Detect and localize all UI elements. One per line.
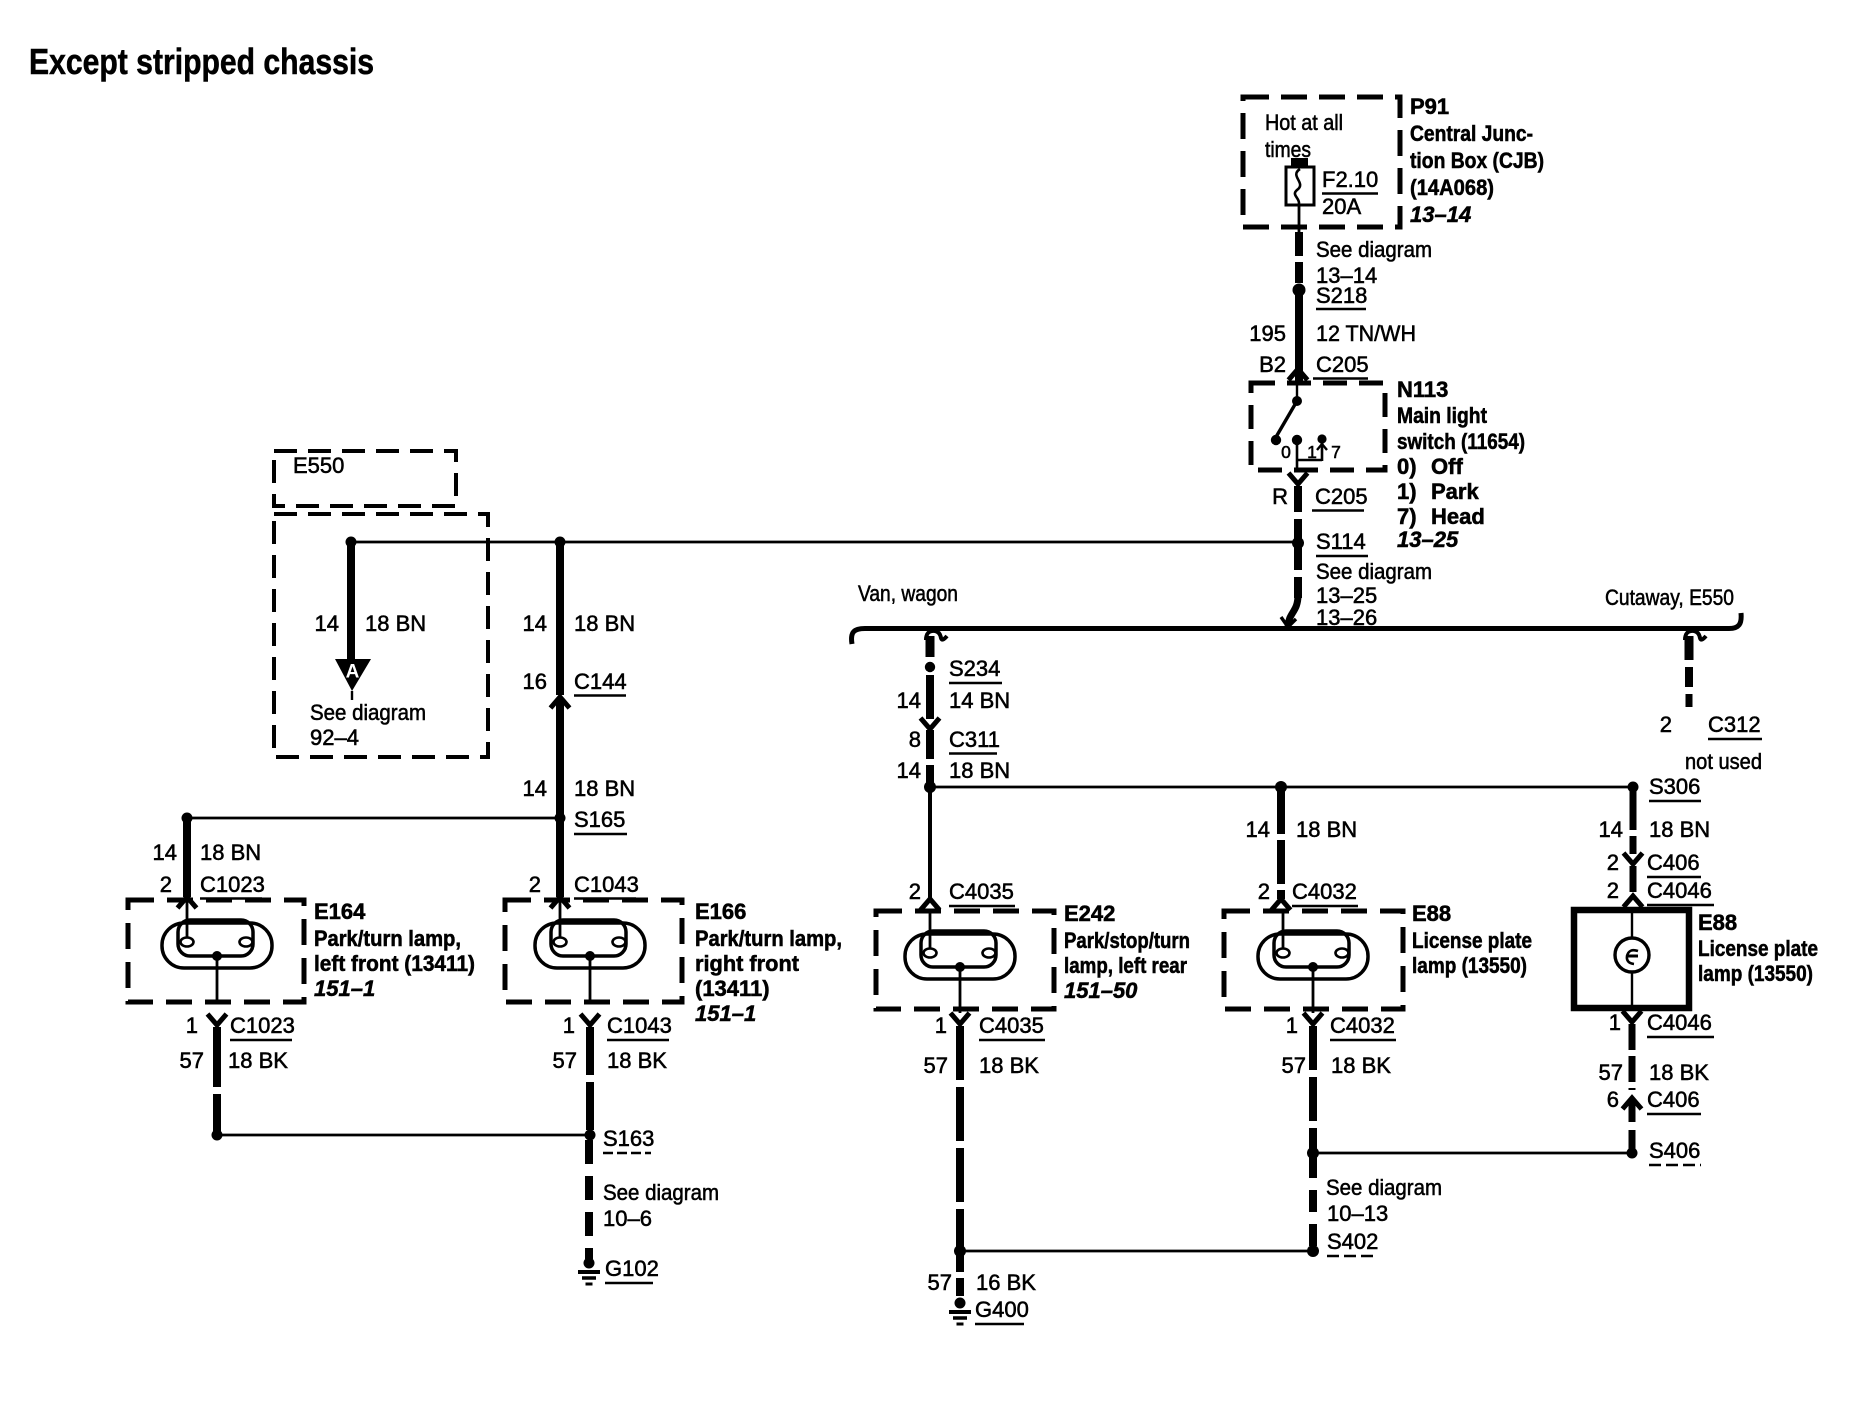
svg-text:57: 57 [180,1048,204,1073]
svg-text:1: 1 [935,1013,947,1038]
svg-text:13–14: 13–14 [1410,202,1471,227]
svg-text:C1023: C1023 [230,1013,295,1038]
svg-text:14: 14 [315,611,339,636]
svg-text:Central Junc-: Central Junc- [1410,121,1533,146]
svg-text:C1043: C1043 [607,1013,672,1038]
svg-text:20A: 20A [1322,194,1361,219]
svg-text:195: 195 [1249,321,1286,346]
svg-text:0): 0) [1397,454,1417,479]
svg-text:14: 14 [897,758,921,783]
svg-text:14 BN: 14 BN [949,688,1010,713]
svg-text:57: 57 [553,1048,577,1073]
svg-text:2: 2 [160,872,172,897]
svg-text:18 BN: 18 BN [200,840,261,865]
svg-text:S114: S114 [1316,529,1366,554]
svg-text:2: 2 [1660,712,1672,737]
svg-text:2: 2 [909,879,921,904]
svg-text:C144: C144 [574,669,627,694]
svg-text:10–6: 10–6 [603,1206,652,1231]
svg-text:R: R [1272,484,1288,509]
svg-text:57: 57 [924,1053,948,1078]
svg-text:lamp (13550): lamp (13550) [1698,961,1813,986]
svg-text:C1023: C1023 [200,872,265,897]
svg-text:6: 6 [1607,1087,1619,1112]
svg-text:16 BK: 16 BK [976,1270,1036,1295]
svg-text:E242: E242 [1064,901,1115,926]
svg-text:13–25: 13–25 [1397,527,1459,552]
svg-text:B2: B2 [1259,352,1286,377]
svg-text:1: 1 [563,1013,575,1038]
svg-text:1: 1 [1286,1013,1298,1038]
svg-text:C406: C406 [1647,850,1700,875]
svg-text:C4046: C4046 [1647,878,1712,903]
svg-text:S163: S163 [603,1126,654,1151]
svg-text:7): 7) [1397,504,1417,529]
svg-text:151–50: 151–50 [1064,978,1138,1003]
svg-text:16: 16 [523,669,547,694]
svg-text:See diagram: See diagram [603,1180,719,1205]
svg-text:14: 14 [1246,817,1270,842]
svg-text:C311: C311 [949,727,1000,752]
svg-text:1: 1 [186,1013,198,1038]
svg-text:Head: Head [1431,504,1485,529]
svg-text:18 BN: 18 BN [365,611,426,636]
svg-text:E164: E164 [314,899,366,924]
svg-text:57: 57 [1282,1053,1306,1078]
svg-text:C4035: C4035 [979,1013,1044,1038]
svg-text:14: 14 [523,776,547,801]
svg-text:C4032: C4032 [1292,879,1357,904]
svg-text:14: 14 [523,611,547,636]
svg-text:18 BK: 18 BK [607,1048,667,1073]
svg-text:12 TN/WH: 12 TN/WH [1316,321,1416,346]
svg-text:tion Box (CJB): tion Box (CJB) [1410,148,1544,173]
svg-text:(14A068): (14A068) [1410,175,1494,200]
svg-text:lamp (13550): lamp (13550) [1412,953,1527,978]
svg-text:C312: C312 [1708,712,1761,737]
svg-text:License plate: License plate [1412,928,1532,953]
svg-text:C406: C406 [1647,1087,1700,1112]
svg-text:S234: S234 [949,656,1000,681]
svg-text:7: 7 [1331,442,1341,462]
svg-text:lamp, left rear: lamp, left rear [1064,953,1187,978]
svg-text:switch (11654): switch (11654) [1397,429,1525,454]
svg-text:E166: E166 [695,899,746,924]
svg-text:10–13: 10–13 [1327,1201,1388,1226]
svg-text:151–1: 151–1 [314,976,375,1001]
svg-text:18 BN: 18 BN [1296,817,1357,842]
svg-text:14: 14 [1599,817,1623,842]
svg-text:G102: G102 [605,1256,659,1281]
svg-text:Park/turn lamp,: Park/turn lamp, [314,926,461,951]
svg-text:Van, wagon: Van, wagon [858,581,958,606]
svg-text:151–1: 151–1 [695,1001,756,1026]
svg-text:not used: not used [1685,749,1762,774]
svg-text:Off: Off [1431,454,1463,479]
svg-text:2: 2 [529,872,541,897]
svg-text:57: 57 [928,1270,952,1295]
svg-text:C205: C205 [1315,484,1368,509]
svg-text:Except stripped chassis: Except stripped chassis [29,41,374,82]
svg-text:C4032: C4032 [1330,1013,1395,1038]
svg-text:1: 1 [1307,442,1317,462]
svg-text:See diagram: See diagram [1316,559,1432,584]
svg-text:14: 14 [153,840,177,865]
svg-text:A: A [346,662,360,683]
svg-text:Hot at all: Hot at all [1265,110,1343,135]
svg-text:S306: S306 [1649,774,1700,799]
svg-text:N113: N113 [1397,377,1448,402]
svg-text:2: 2 [1607,850,1619,875]
svg-text:C205: C205 [1316,352,1369,377]
svg-text:18 BN: 18 BN [574,611,635,636]
svg-text:E88: E88 [1698,910,1737,935]
svg-text:8: 8 [909,727,921,752]
svg-text:See diagram: See diagram [1326,1175,1442,1200]
svg-text:S165: S165 [574,807,625,832]
svg-text:18 BK: 18 BK [228,1048,288,1073]
svg-text:2: 2 [1607,878,1619,903]
svg-text:18 BK: 18 BK [979,1053,1039,1078]
svg-text:18 BN: 18 BN [1649,817,1710,842]
svg-text:C1043: C1043 [574,872,639,897]
svg-text:1: 1 [1609,1010,1621,1035]
svg-text:E550: E550 [293,453,344,478]
svg-text:S218: S218 [1316,283,1367,308]
svg-text:S402: S402 [1327,1229,1378,1254]
svg-text:F2.10: F2.10 [1322,167,1378,192]
svg-text:18 BK: 18 BK [1649,1060,1709,1085]
svg-text:S406: S406 [1649,1138,1700,1163]
svg-text:C4046: C4046 [1647,1010,1712,1035]
svg-text:Park/turn lamp,: Park/turn lamp, [695,926,842,951]
svg-text:See diagram: See diagram [1316,237,1432,262]
svg-text:1): 1) [1397,479,1417,504]
svg-text:C4035: C4035 [949,879,1014,904]
svg-text:92–4: 92–4 [310,725,359,750]
svg-text:right front: right front [695,951,800,976]
svg-text:18 BN: 18 BN [574,776,635,801]
svg-text:Park/stop/turn: Park/stop/turn [1064,928,1190,953]
svg-text:18 BK: 18 BK [1331,1053,1391,1078]
svg-text:E88: E88 [1412,901,1451,926]
svg-text:18 BN: 18 BN [949,758,1010,783]
svg-text:Park: Park [1431,479,1479,504]
svg-text:Main light: Main light [1397,403,1488,428]
svg-text:57: 57 [1599,1060,1623,1085]
svg-text:14: 14 [897,688,921,713]
svg-text:See diagram: See diagram [310,700,426,725]
svg-text:2: 2 [1258,879,1270,904]
svg-text:License plate: License plate [1698,936,1818,961]
svg-text:0: 0 [1281,442,1291,462]
svg-text:left front (13411): left front (13411) [314,951,475,976]
svg-text:P91: P91 [1410,94,1449,119]
svg-text:(13411): (13411) [695,976,770,1001]
svg-text:G400: G400 [975,1297,1029,1322]
svg-text:Cutaway, E550: Cutaway, E550 [1605,585,1734,610]
